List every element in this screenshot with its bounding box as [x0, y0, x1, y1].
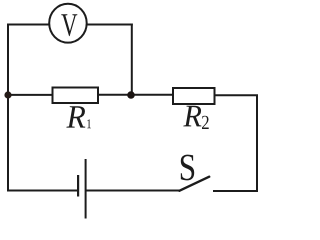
wire top-left horizontal: [7, 24, 50, 26]
wire battery to switch: [86, 190, 180, 192]
resistor R1 label R: [66, 106, 85, 127]
switch S label: [181, 155, 194, 181]
wire left vertical: [7, 24, 9, 192]
resistor R2 label R: [183, 106, 201, 127]
battery positive plate (long): [85, 159, 87, 219]
switch S blade: [179, 177, 209, 191]
voltmeter V1 label V: [61, 14, 77, 36]
resistor R2 box: [173, 88, 215, 104]
wire switch right terminal: [213, 190, 258, 192]
node B junction dot: [127, 91, 135, 99]
wire top-right horizontal: [87, 24, 133, 26]
wire vertical from top wire down to node B: [131, 24, 133, 96]
voltmeter V1 circle: [49, 4, 87, 43]
wire middle left to R1: [8, 94, 53, 96]
wire right vertical: [256, 95, 258, 193]
resistor R1 box: [53, 88, 99, 104]
resistor R2 label subscript 2: [202, 116, 209, 129]
wire between R1 and R2: [98, 94, 173, 96]
wire bottom left to battery: [8, 190, 78, 192]
resistor R1 label subscript 1: [87, 119, 91, 128]
node A junction dot: [4, 91, 11, 98]
wire R2 to right corner: [215, 94, 259, 96]
battery negative plate (short): [77, 175, 79, 197]
